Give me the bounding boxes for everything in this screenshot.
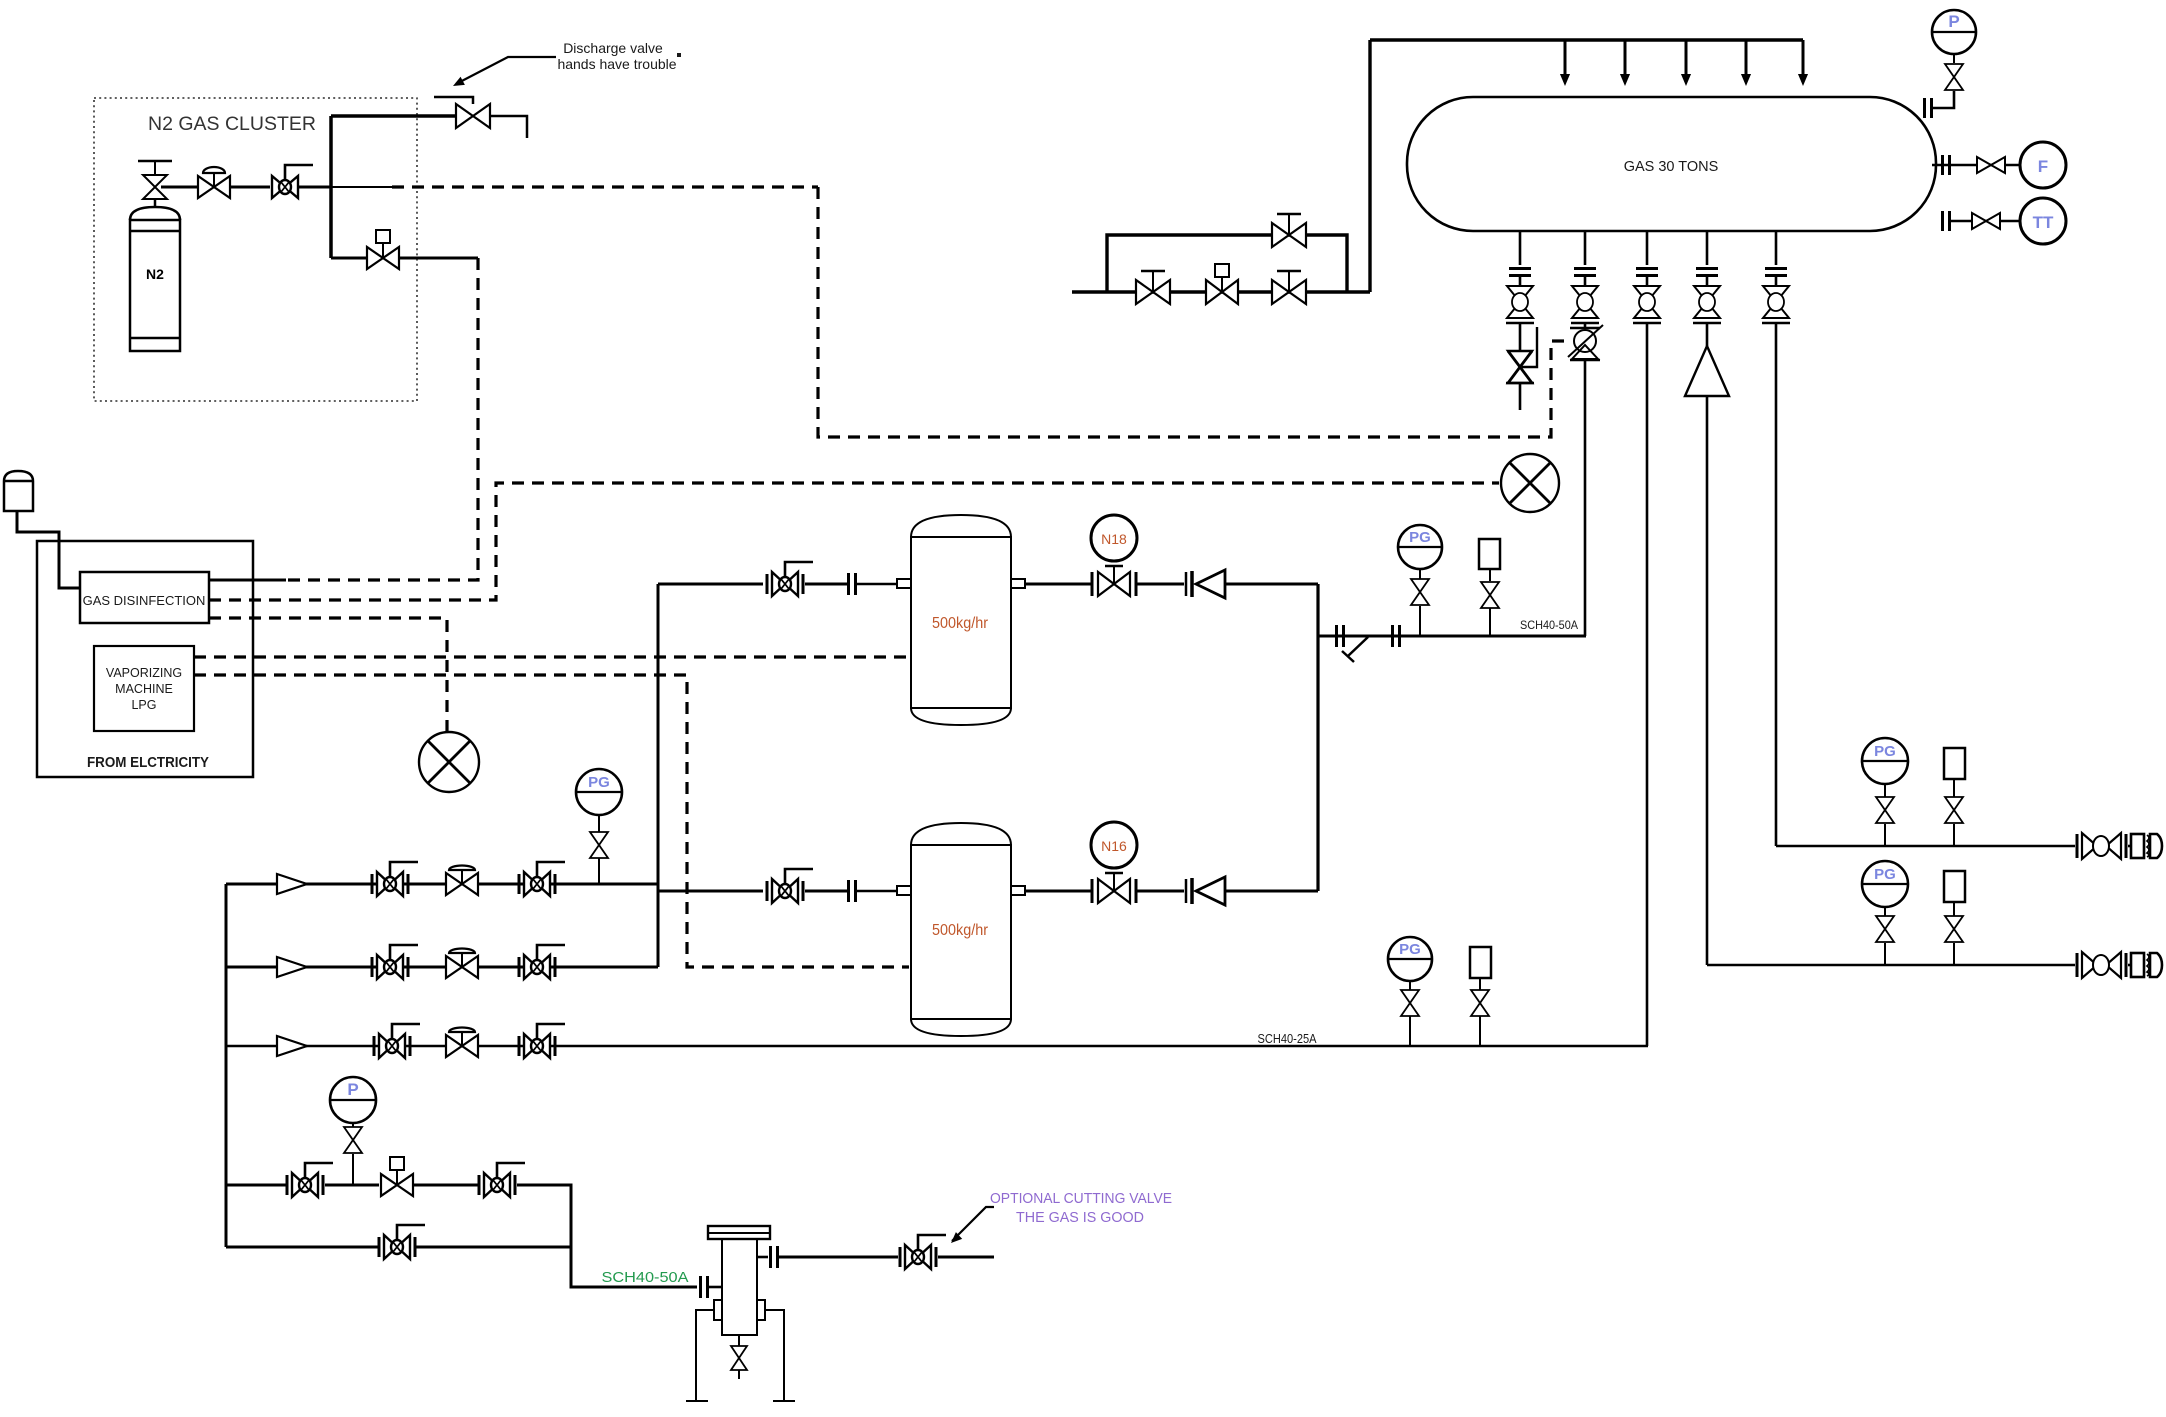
instrument circle N18 [1091, 515, 1137, 561]
svg-text:FROM ELCTRICITY: FROM ELCTRICITY [87, 755, 209, 771]
vaporizer outlet collector riser [1316, 584, 1319, 891]
electric mixer symbol 1 [1501, 454, 1559, 512]
svg-text:PG: PG [588, 774, 610, 791]
pipe 3 down to SCH40-25A line [1646, 323, 1649, 1046]
valve bypass lower a [1136, 271, 1170, 304]
valve tank pipe 1 [1506, 286, 1534, 323]
instrument circle F [2020, 142, 2066, 188]
globe valve line 1 [446, 866, 478, 896]
electricity cabinet enclosure [37, 541, 253, 777]
pipe [413, 1184, 479, 1187]
pipe [1136, 583, 1184, 586]
vaporizer 1 inlet nozzle [897, 579, 911, 588]
svg-text:THE GAS IS GOOD: THE GAS IS GOOD [1016, 1210, 1144, 1226]
gauge PG on SCH40-25A line [1388, 937, 1432, 981]
globe valve N18 [1091, 572, 1094, 596]
svg-text:PG: PG [1874, 866, 1896, 883]
flange filter inlet [701, 1276, 708, 1298]
hose valve outlet B [2077, 952, 2126, 978]
svg-text:SCH40-25A: SCH40-25A [1258, 1031, 1317, 1046]
tank nozzle pipe 2 [1584, 231, 1587, 265]
gauge PG outlet B [1862, 861, 1908, 907]
PG riser on SCH40-25A line [1409, 1016, 1411, 1046]
valve on P riser [1945, 64, 1963, 90]
svg-text:PG: PG [1409, 529, 1431, 546]
PG riser outlet B [1884, 943, 1886, 965]
riser from bypass to spray header [1368, 40, 1371, 292]
discharge valve HV-04 [456, 104, 490, 128]
reducer line 2 [277, 957, 307, 977]
discharge outlet pipe [490, 116, 527, 138]
globe valve line 2 [446, 949, 478, 978]
vaporizer 2 inlet nozzle [897, 886, 911, 895]
pipe 5 down [1775, 323, 1778, 846]
pipe 2 down to vapor header [1584, 360, 1587, 636]
N2 cylinder [130, 207, 180, 351]
pipe [805, 583, 848, 586]
svg-text:PG: PG [1399, 941, 1421, 958]
spray header pipe above tank [1370, 38, 1803, 41]
gauge PG outlet A [1862, 738, 1908, 784]
box GAS DISINFECTION [80, 572, 209, 623]
signal line to gas disinfection (dashed) [286, 258, 478, 580]
vent cone pipe 4 [1685, 346, 1729, 396]
reducer line 1 [277, 874, 307, 894]
pipe to TT instrument [1950, 220, 2020, 223]
note leader arrow [456, 57, 556, 84]
relief valve pipe 1 [1506, 351, 1534, 383]
flange P tap on tank [1925, 98, 1932, 118]
check valve vaporizer 2 [1186, 877, 1225, 905]
svg-text:PG: PG [1874, 743, 1896, 760]
cylinder valve HV-01 [154, 199, 157, 207]
pipe 4 stem [1706, 323, 1709, 346]
bypass valve on loop [1272, 214, 1306, 247]
valve tank pipe 2 [1571, 286, 1599, 323]
svg-text:MACHINE: MACHINE [115, 682, 173, 696]
filter drain valve [738, 1335, 740, 1346]
vaporizer 1 outlet pipe [1025, 583, 1092, 586]
box VAPORIZING MACHINE LPG [94, 646, 194, 731]
manifold line 1 pipe [226, 883, 658, 886]
manifold line 3 pipe SCH40-25A [226, 1045, 1648, 1048]
svg-text:SCH40-50A: SCH40-50A [1520, 618, 1578, 632]
globe valve HV-02 [198, 167, 230, 198]
ball valve HV-03 [272, 165, 313, 198]
drain slope symbol [1348, 637, 1368, 656]
gate valve with actuator HV-05 [367, 230, 399, 269]
globe valve N16 [1091, 879, 1094, 903]
PG riser on vapor header [1419, 606, 1421, 636]
instrument circle TT [2020, 198, 2066, 244]
valve on F line [1977, 157, 2005, 173]
regulator valve branch A [381, 1157, 413, 1196]
svg-text:GAS DISINFECTION: GAS DISINFECTION [83, 593, 206, 608]
flange tank pipe 5 [1765, 269, 1787, 276]
pipe [856, 890, 897, 893]
pipe [805, 890, 848, 893]
wire gas disinfection line 1 (solid stub) [209, 579, 286, 582]
valve bypass lower b with actuator [1206, 264, 1238, 304]
ball valve line 3 b [519, 1024, 565, 1058]
gauge P on tank [1932, 10, 1976, 54]
pipe to F instrument [1932, 164, 2020, 167]
flange tank pipe 3 [1636, 269, 1658, 276]
svg-text:N2: N2 [146, 266, 164, 282]
pipe 4 elbow to outlet B [1707, 964, 2075, 967]
vaporizer 1 inlet pipe [658, 583, 763, 586]
pipe to junction [298, 186, 331, 189]
spray arrow 5 [1802, 40, 1805, 76]
PG riser outlet A [1884, 824, 1886, 846]
gauge P branch A [330, 1077, 376, 1123]
ball valve line 3 a [374, 1024, 420, 1058]
filter legs [696, 1310, 714, 1401]
outlet stub pipe [938, 1256, 994, 1259]
filter vessel [708, 1226, 770, 1335]
valve tank pipe 4 [1693, 286, 1721, 323]
pipe 2 stem upper [1584, 323, 1587, 328]
tank nozzle pipe 4 [1706, 231, 1709, 265]
signal vaporizing machine line 2 (dashed) [194, 675, 909, 967]
signal gas disinfection line 3 (dashed) [209, 618, 447, 731]
transmitter riser outlet B [1944, 871, 1965, 902]
flange vaporizer 1 inlet [849, 573, 856, 595]
alarm bell [4, 471, 33, 511]
ball valve vaporizer 2 inlet [767, 869, 813, 903]
vaporizer 2 outlet nozzle [1011, 886, 1025, 895]
pipe N2 lower branch [331, 257, 367, 260]
svg-text:500kg/hr: 500kg/hr [932, 615, 989, 632]
gauge PG on vapor header [1398, 525, 1442, 569]
flange tank pipe 4 [1696, 269, 1718, 276]
spray arrow 3 [1685, 40, 1688, 76]
pipe cylinder to globe valve [161, 186, 198, 189]
pipe 1 outlet stub [1519, 383, 1522, 410]
pipe N2 main out [331, 186, 392, 188]
svg-text:P: P [1948, 12, 1959, 31]
pipe 4 down [1706, 396, 1709, 965]
pipe 5 elbow to outlet A [1776, 845, 2075, 848]
svg-text:VAPORIZING: VAPORIZING [106, 666, 182, 680]
pipe [1136, 890, 1184, 893]
valve tank pipe 5 [1762, 286, 1790, 323]
hose coupling outlet B [2128, 953, 2162, 977]
manifold header pipe [225, 884, 228, 1247]
wire bell to gas disinfection [17, 511, 80, 588]
bypass group lower pipe [1072, 290, 1370, 293]
branch B pipe [226, 1246, 379, 1249]
globe valve line 3 [446, 1028, 478, 1058]
pipe [230, 186, 270, 189]
branch A pipe [226, 1184, 286, 1187]
manifold line 2 pipe [226, 966, 658, 969]
vaporizer 2 outlet pipe [1025, 890, 1092, 893]
pipe [399, 257, 478, 260]
spray arrow 4 [1745, 40, 1748, 76]
vaporizer 2 inlet pipe [658, 890, 763, 893]
N2 header junction vertical [329, 116, 333, 258]
svg-text:500kg/hr: 500kg/hr [932, 922, 989, 939]
svg-text:N16: N16 [1101, 838, 1127, 854]
pipe to collector [1225, 583, 1318, 586]
ball valve line 2 a [372, 945, 418, 979]
pipe to discharge valve [331, 114, 456, 118]
svg-text:LPG: LPG [131, 698, 156, 712]
tank nozzle pipe 1 [1519, 231, 1522, 265]
control valve on pipe 2 (N2 purge) [1568, 325, 1603, 360]
signal gas disinfection line 2 (dashed) [209, 483, 1499, 600]
valve tank pipe 3 [1633, 286, 1661, 323]
pipe 1 blowoff stem [1519, 323, 1522, 351]
vapor header pipe SCH40-50A [1318, 635, 1586, 638]
pipe branch B to drop [415, 1246, 571, 1249]
svg-text:SCH40-50A: SCH40-50A [602, 1270, 689, 1286]
ball valve line 1 a [372, 862, 418, 896]
vaporizer 1 vessel 500kg/hr [911, 515, 1011, 725]
electric mixer symbol 2 [419, 732, 479, 792]
tank nozzle pipe 3 [1646, 231, 1649, 265]
vaporizer 1 outlet nozzle [1011, 579, 1025, 588]
svg-text:GAS 30 TONS: GAS 30 TONS [1624, 159, 1719, 175]
spray arrow 2 [1624, 40, 1627, 76]
ball valve line 1 b [519, 862, 565, 896]
svg-text:N18: N18 [1101, 531, 1127, 547]
check valve vaporizer 1 [1186, 570, 1225, 598]
pipe to P gauge [1932, 91, 1954, 108]
note leader arrow optional valve [952, 1207, 994, 1241]
svg-text:OPTIONAL CUTTING VALVE: OPTIONAL CUTTING VALVE [990, 1191, 1172, 1207]
optional cutting ball valve [900, 1235, 946, 1269]
svg-text:hands have trouble: hands have trouble [557, 56, 676, 72]
pipe to collector [1225, 890, 1318, 893]
svg-text:TT: TT [2033, 213, 2054, 232]
flange a on vapor header [1337, 625, 1344, 647]
pipe [325, 1184, 379, 1187]
P gauge riser branch A [352, 1154, 354, 1185]
svg-text:F: F [2038, 157, 2048, 176]
N2 gas cluster dotted enclosure [94, 98, 417, 401]
filter outlet pipe [757, 1256, 768, 1259]
hose coupling outlet A [2128, 834, 2162, 858]
pipe 1 vent loop [1522, 327, 1537, 367]
svg-text:N2 GAS CLUSTER: N2 GAS CLUSTER [148, 113, 316, 135]
riser to vaporizer inlets [657, 584, 660, 967]
transmitter riser outlet A [1944, 748, 1965, 779]
valve bypass lower c [1272, 271, 1306, 304]
valve on TT line [1972, 213, 2000, 229]
pipe [856, 583, 897, 586]
ball valve vaporizer 1 inlet [767, 562, 813, 596]
flange tank pipe 2 [1574, 269, 1596, 276]
flange filter outlet [771, 1246, 778, 1268]
transmitter riser on SCH40-25A line [1470, 947, 1491, 978]
flange b on vapor header [1393, 625, 1400, 647]
flange tank pipe 1 [1509, 269, 1531, 276]
hose valve outlet A [2077, 833, 2126, 859]
PG riser line 1 [598, 858, 600, 884]
signal line N2 to tank blowdown valve (dashed) [392, 185, 818, 188]
flange vaporizer 2 inlet [849, 880, 856, 902]
spray arrow 1 [1564, 40, 1567, 76]
instrument circle N16 [1091, 822, 1137, 868]
ball valve branch A outlet [479, 1163, 525, 1197]
flange F tap on tank [1943, 155, 1950, 175]
bypass loop pipe [1107, 235, 1347, 292]
tank GAS 30 TONS [1407, 97, 1936, 231]
pipe branch A to drop [517, 1185, 697, 1287]
reducer line 3 [277, 1036, 307, 1056]
gauge PG line 1 [576, 769, 622, 815]
tank nozzle pipe 5 [1775, 231, 1778, 265]
transmitter riser on vapor header [1479, 539, 1500, 569]
vaporizer 2 vessel 500kg/hr [911, 823, 1011, 1036]
svg-text:Discharge valve: Discharge valve [563, 40, 663, 56]
ball valve branch A inlet [287, 1163, 333, 1197]
flange TT tap on tank [1943, 211, 1950, 231]
svg-text:P: P [347, 1080, 358, 1099]
signal vaporizing machine line 1 (dashed) [194, 655, 909, 658]
ball valve line 2 b [519, 945, 565, 979]
ball valve branch B [379, 1225, 425, 1259]
